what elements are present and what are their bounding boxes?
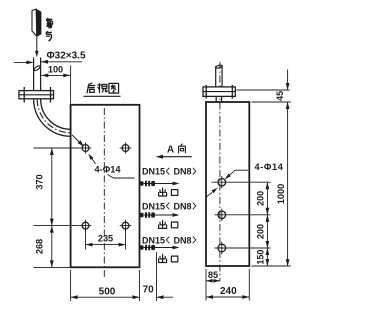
leader arrow to hole <box>72 135 79 142</box>
dimension 370 <box>51 148 53 226</box>
side flange <box>203 87 235 97</box>
inlet flange <box>19 91 54 99</box>
svg-text:DN15: DN15 <box>142 235 165 245</box>
label outlet (CJK) row 1 <box>159 188 167 196</box>
svg-text:100: 100 <box>48 65 63 75</box>
dimension 45 <box>287 70 289 91</box>
label outlet (CJK) row 3 <box>159 255 167 263</box>
svg-text:Φ32×3.5: Φ32×3.5 <box>46 51 86 62</box>
svg-text:200: 200 <box>256 224 266 239</box>
mounting holes 4xphi14 rear <box>82 145 89 152</box>
outlet nozzle 1 DN15(DN8) <box>140 181 144 185</box>
extension line flange face <box>237 89 290 91</box>
dimension phi32x3.5 <box>14 61 33 63</box>
svg-text:DN15: DN15 <box>142 201 165 211</box>
side inlet pipe <box>215 66 217 87</box>
curved pipe to manifold <box>34 99 71 136</box>
svg-text:150: 150 <box>256 250 266 265</box>
dimension 70 <box>156 252 158 301</box>
extension line side bottom <box>252 265 291 267</box>
inlet flow arrow <box>36 37 38 52</box>
svg-text:1000: 1000 <box>276 184 286 204</box>
extension line bottom left <box>34 266 71 268</box>
rear view label (CJK) <box>87 83 95 93</box>
svg-text:4-Φ14: 4-Φ14 <box>95 164 122 174</box>
svg-text:DN15: DN15 <box>142 167 165 177</box>
svg-text:DN8: DN8 <box>174 201 192 211</box>
view direction arrow <box>158 156 192 158</box>
rear view body <box>71 105 140 267</box>
flange neck <box>215 96 217 102</box>
svg-text:45: 45 <box>275 91 285 101</box>
svg-text:DN8: DN8 <box>174 235 192 245</box>
dimension 268 <box>51 226 53 268</box>
oxygen inlet banner arrow <box>32 9 41 36</box>
dimension 235 <box>85 230 87 250</box>
dimension 500 <box>70 270 72 301</box>
svg-text:500: 500 <box>99 286 116 297</box>
svg-text:268: 268 <box>35 239 45 254</box>
svg-text:235: 235 <box>98 233 113 243</box>
svg-text:4-Φ14: 4-Φ14 <box>255 162 284 172</box>
second leader arrow side <box>206 192 212 197</box>
inlet pipe phi32 <box>33 58 35 91</box>
outlet nozzle 3 DN15(DN8) <box>140 245 144 249</box>
svg-text:200: 200 <box>256 191 266 206</box>
extension lines side holes <box>212 181 271 183</box>
svg-text:85: 85 <box>208 270 218 280</box>
extension line left edge top <box>70 66 72 105</box>
svg-text:DN8: DN8 <box>174 167 192 177</box>
label oxygen gas (CJK) <box>46 18 52 27</box>
dimension 85 <box>205 269 207 284</box>
dimension 240 <box>205 284 207 301</box>
svg-text:A: A <box>167 144 174 155</box>
extension line side top <box>252 101 291 103</box>
outlet nozzle 2 DN15(DN8) <box>140 213 144 217</box>
leader elbow under label <box>108 175 135 179</box>
side view body <box>206 102 249 266</box>
vertical centerline <box>103 108 105 279</box>
svg-text:240: 240 <box>220 286 237 297</box>
dimension chain 200/200/150 <box>266 182 268 266</box>
svg-text:370: 370 <box>35 174 45 189</box>
extension lines hole rows <box>34 147 80 149</box>
side centerline <box>219 62 221 282</box>
mounting holes side <box>218 178 226 186</box>
dimension 1000 <box>287 102 289 266</box>
label outlet (CJK) row 2 <box>159 220 167 228</box>
svg-text:70: 70 <box>143 284 155 295</box>
